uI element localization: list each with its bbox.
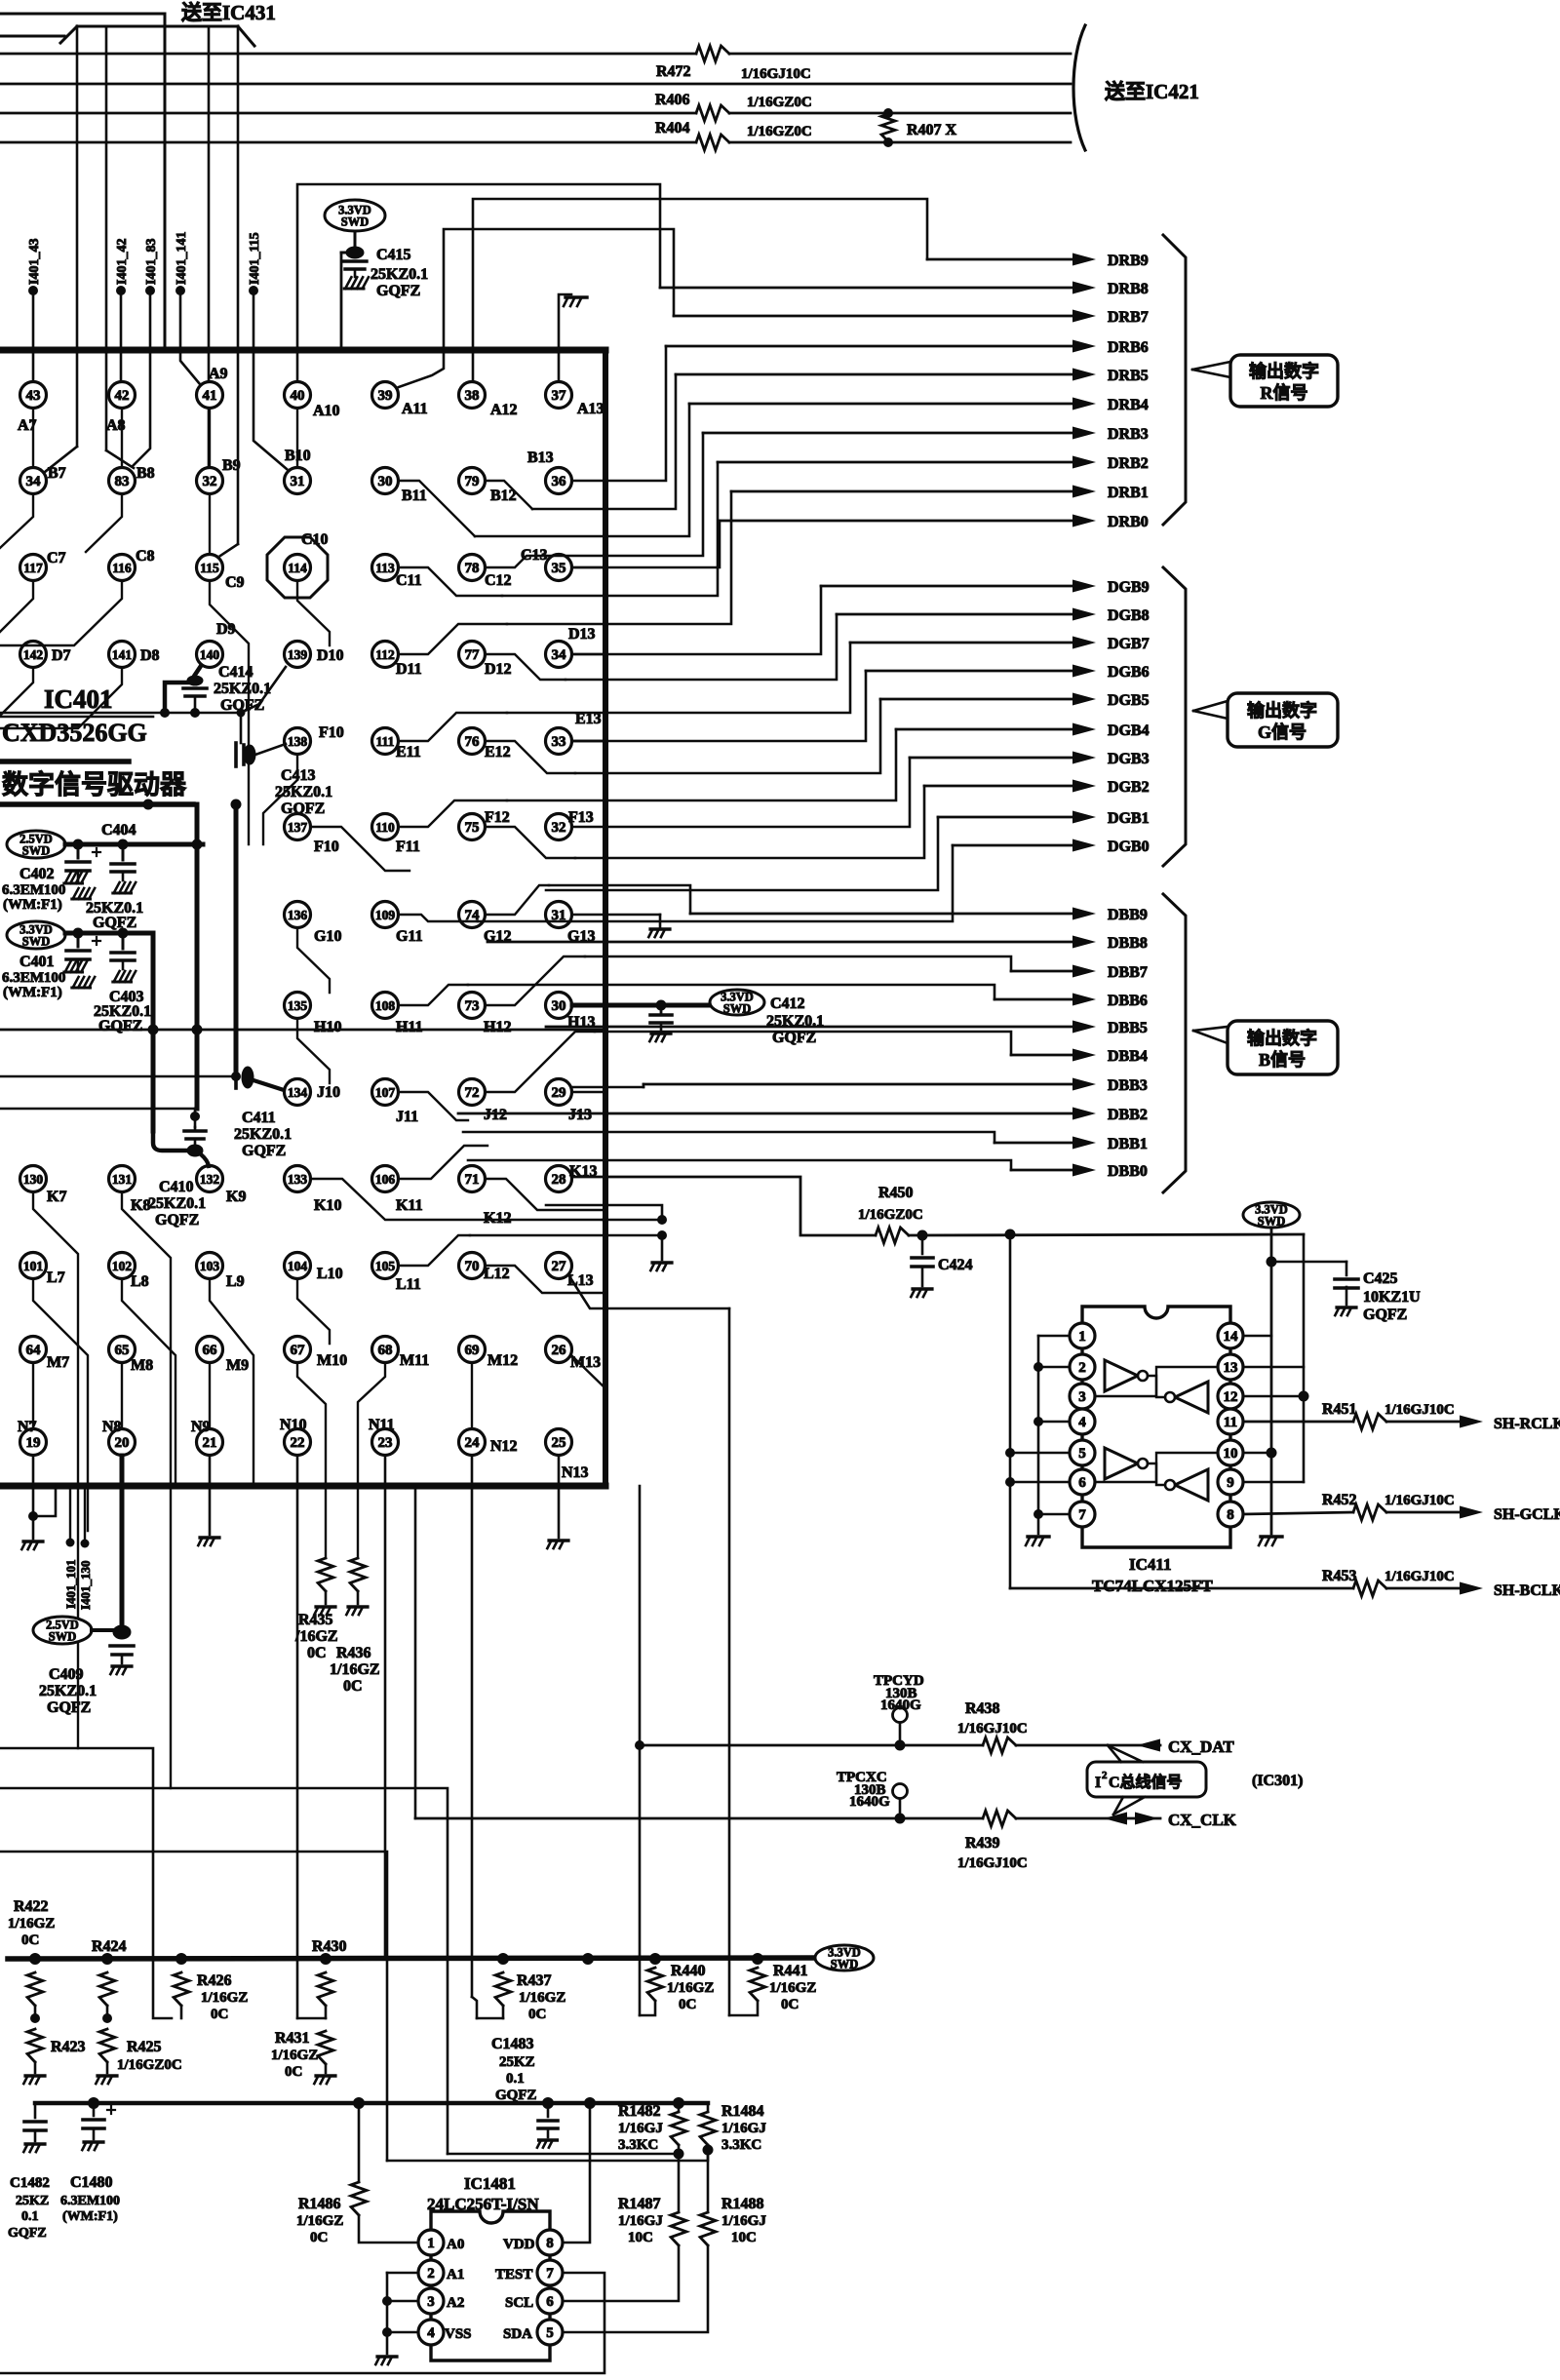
label C1480 xyxy=(60,2174,120,2224)
svg-text:CX_DAT: CX_DAT xyxy=(1168,1737,1234,1756)
label VSS xyxy=(445,2326,472,2342)
junction rail1 x672 xyxy=(649,1953,661,1965)
svg-text:0C: 0C xyxy=(21,1932,39,1948)
wire DGB6 net xyxy=(572,665,1096,742)
label D11 xyxy=(396,661,422,678)
wire H11 feed DBB6 xyxy=(399,985,468,1005)
label L8 xyxy=(131,1273,149,1290)
callout 输出数字G信号 xyxy=(1193,693,1338,747)
svg-text:DRB0: DRB0 xyxy=(1108,514,1149,530)
node TPCXC xyxy=(893,1784,908,1824)
label A13 xyxy=(577,401,604,417)
svg-text:G11: G11 xyxy=(396,928,423,945)
wire H10 connector xyxy=(297,1019,330,1083)
pin 33 (E13) of IC401 xyxy=(546,728,572,755)
wire D12 feed DGB8 xyxy=(486,654,565,680)
label M8 xyxy=(131,1357,153,1374)
svg-text:3: 3 xyxy=(1078,1389,1086,1405)
wire J13 feed xyxy=(572,1091,605,1094)
power 3.3VD SWD (left lower) xyxy=(7,921,65,949)
resistor R437 xyxy=(477,1972,511,2018)
label IC301 ref xyxy=(1252,1773,1303,1789)
capacitor C401 xyxy=(66,933,100,959)
svg-text:1/16GJ: 1/16GJ xyxy=(618,2213,663,2229)
wire DBB9 net xyxy=(549,885,1096,920)
label F10 xyxy=(319,724,344,741)
svg-text:42: 42 xyxy=(115,388,130,404)
power 3.3VD SWD (C412) xyxy=(710,990,764,1016)
svg-text:7: 7 xyxy=(1078,1507,1086,1523)
resistor R1486 xyxy=(351,2103,417,2243)
svg-text:输出数字: 输出数字 xyxy=(1247,1028,1317,1048)
svg-text:19: 19 xyxy=(26,1435,41,1451)
svg-text:1/16GJ10C: 1/16GJ10C xyxy=(1384,1402,1455,1418)
pin 41 (A9) of IC401 xyxy=(197,382,223,409)
svg-text:116: 116 xyxy=(112,561,132,575)
svg-text:1/16GZ: 1/16GZ xyxy=(271,2048,318,2063)
svg-text:D9: D9 xyxy=(216,621,236,638)
svg-text:H10: H10 xyxy=(314,1019,341,1035)
label N9 xyxy=(191,1419,211,1435)
wire C414 jog xyxy=(160,683,192,718)
wire E10 link xyxy=(263,755,297,844)
label DBB6 xyxy=(1108,993,1148,1009)
buffer U2b xyxy=(1095,1448,1156,1482)
pin 135 (H10) of IC401 xyxy=(285,993,311,1019)
svg-text:CXD3526GG: CXD3526GG xyxy=(2,719,147,747)
label C403 xyxy=(94,989,151,1034)
svg-text:1/16GJ: 1/16GJ xyxy=(618,2121,663,2136)
wire vertical to IC411 pins xyxy=(1009,1234,1012,1588)
pin 64 (M7) of IC401 xyxy=(20,1337,47,1363)
capacitor C412 xyxy=(650,1005,672,1032)
label C402 xyxy=(2,866,65,913)
label DRB3 xyxy=(1108,426,1149,443)
wire C8 exit xyxy=(0,581,122,645)
pin 83 (B8) of IC401 xyxy=(109,468,136,494)
svg-text:0.1: 0.1 xyxy=(506,2071,525,2087)
label A9 xyxy=(209,366,228,382)
svg-text:0C: 0C xyxy=(781,1997,799,2012)
junction rail1 x334 xyxy=(320,1953,331,1965)
ground C1480 xyxy=(82,2142,103,2150)
power 3.3VD SWD (rail1) xyxy=(815,1945,874,1971)
svg-text:139: 139 xyxy=(288,647,308,662)
pin 30 (H13) of IC401 xyxy=(546,993,572,1019)
svg-text:R425: R425 xyxy=(127,2039,162,2055)
svg-text:25KZ: 25KZ xyxy=(499,2054,535,2070)
wire DGB9 net xyxy=(572,580,1096,655)
svg-text:1/16GZ0C: 1/16GZ0C xyxy=(747,95,812,110)
label N10 xyxy=(280,1417,307,1433)
label C411 xyxy=(234,1110,292,1159)
label A0 xyxy=(447,2237,464,2252)
pin 14 of IC411 xyxy=(1218,1323,1243,1348)
svg-text:R440: R440 xyxy=(671,1963,706,1979)
svg-text:SWD: SWD xyxy=(22,935,50,949)
label C412 xyxy=(766,995,824,1046)
svg-text:111: 111 xyxy=(376,734,395,749)
label K7 xyxy=(47,1189,66,1205)
svg-text:R404: R404 xyxy=(655,120,690,137)
svg-text:E11: E11 xyxy=(396,744,421,761)
resistor R1482 xyxy=(671,2103,686,2160)
wire IC411 top rail xyxy=(922,1233,1304,1235)
wire thick vertical x157 xyxy=(151,933,156,1131)
svg-text:K11: K11 xyxy=(396,1197,423,1214)
wire N7 hookup xyxy=(28,1456,56,1539)
svg-text:1/16GZ: 1/16GZ xyxy=(330,1661,380,1678)
svg-text:I401_130: I401_130 xyxy=(78,1560,93,1610)
svg-text:2: 2 xyxy=(1078,1360,1086,1376)
pin 8 of IC411 xyxy=(1218,1502,1243,1527)
svg-text:1/16GZ0C: 1/16GZ0C xyxy=(117,2057,182,2073)
pin 137 (F10) of IC401 xyxy=(285,814,311,840)
IC401 bottom boundary xyxy=(0,1483,605,1490)
pin 66 (M9) of IC401 xyxy=(197,1337,223,1363)
resistor R424 xyxy=(99,1972,115,2023)
pin 27 (L13) of IC401 xyxy=(546,1253,572,1279)
label DRB7 xyxy=(1108,309,1149,326)
capacitor C411 xyxy=(231,1067,253,1088)
svg-text:SWD: SWD xyxy=(831,1958,858,1971)
label L9 xyxy=(226,1273,245,1290)
svg-text:0C: 0C xyxy=(310,2230,328,2245)
svg-text:71: 71 xyxy=(465,1172,480,1188)
bus gather bracket IC421 xyxy=(1073,25,1085,150)
svg-text:25KZ0.1: 25KZ0.1 xyxy=(214,681,271,697)
pin 130 (K7) of IC401 xyxy=(20,1166,47,1192)
wire DBB1 net xyxy=(463,1132,1096,1150)
label C8 xyxy=(136,548,155,565)
svg-text:132: 132 xyxy=(200,1172,220,1187)
svg-text:L11: L11 xyxy=(396,1276,421,1293)
svg-text:136: 136 xyxy=(288,908,308,922)
label A11 xyxy=(402,401,428,417)
svg-text:12: 12 xyxy=(1224,1389,1238,1405)
wire C11 feed DRB2 xyxy=(399,567,502,596)
label R438 xyxy=(957,1700,1028,1736)
pin 4 of IC411 xyxy=(1070,1409,1095,1434)
label K12 xyxy=(484,1210,511,1227)
svg-text:2: 2 xyxy=(1102,1770,1108,1781)
svg-text:4: 4 xyxy=(427,2325,435,2341)
pin 141 (D8) of IC401 xyxy=(109,642,136,668)
svg-text:R1488: R1488 xyxy=(721,2196,764,2212)
wire TEST net xyxy=(0,2273,604,2373)
pin 140 (D9) of IC401 xyxy=(197,642,223,668)
wire thick elbow to C410 xyxy=(153,1131,187,1151)
svg-text:GQFZ: GQFZ xyxy=(47,1699,91,1716)
callout 输出数字R信号 xyxy=(1192,355,1338,407)
wire F10 connector xyxy=(311,827,409,871)
wire lower-left h4 xyxy=(0,1852,387,2161)
label J12 xyxy=(484,1107,507,1123)
label D9 xyxy=(216,621,236,638)
svg-text:L8: L8 xyxy=(131,1273,149,1290)
svg-text:6.3EM100: 6.3EM100 xyxy=(2,882,65,898)
svg-text:R436: R436 xyxy=(336,1645,371,1661)
wire CX_CLK net xyxy=(415,1811,1160,1826)
svg-text:1/16GJ10C: 1/16GJ10C xyxy=(1384,1493,1455,1508)
wire J11 connector xyxy=(399,1092,468,1120)
svg-text:25: 25 xyxy=(552,1435,566,1451)
label C7 xyxy=(47,550,66,566)
label DBB0 xyxy=(1108,1163,1148,1180)
label L11 xyxy=(396,1276,421,1293)
label D13 xyxy=(568,626,596,643)
label R439 xyxy=(957,1835,1028,1871)
ground IC411 left xyxy=(1026,1537,1049,1545)
label E12 xyxy=(485,744,511,761)
ground at A13 xyxy=(559,294,587,381)
wire C413 feed xyxy=(240,713,243,743)
pin 110 (F11) of IC401 xyxy=(372,814,399,840)
wire M12 stub xyxy=(471,1363,473,1428)
svg-text:B11: B11 xyxy=(402,488,427,504)
wire K11 connector xyxy=(399,1146,487,1179)
wire DGB8 net xyxy=(565,608,1096,681)
wire D13 feed xyxy=(572,653,605,656)
wire L13 chain xyxy=(569,1276,729,1308)
label R430 xyxy=(312,1938,347,1955)
junction rail1 x36 xyxy=(29,1953,41,1965)
svg-text:R435: R435 xyxy=(298,1612,333,1628)
label C11 xyxy=(396,572,422,589)
wire DGB0 net xyxy=(478,839,1096,922)
svg-text:13: 13 xyxy=(1224,1360,1238,1376)
svg-text:K10: K10 xyxy=(314,1197,341,1214)
svg-text:L10: L10 xyxy=(317,1266,343,1282)
wire DBB5 net xyxy=(546,1021,1096,1034)
wire rail1 xyxy=(8,1958,815,1959)
label DGB4 xyxy=(1108,722,1150,739)
svg-text:N8: N8 xyxy=(102,1419,122,1435)
label CX_DAT xyxy=(1168,1737,1234,1756)
svg-text:29: 29 xyxy=(552,1085,566,1101)
pin 34 (B7) of IC401 xyxy=(20,468,47,494)
pin 34 (D13) of IC401 xyxy=(546,642,572,668)
label R424 xyxy=(92,1938,127,1955)
label N12 xyxy=(490,1438,518,1455)
label DGB3 xyxy=(1108,751,1150,767)
svg-text:3: 3 xyxy=(427,2294,435,2310)
label M13 xyxy=(570,1354,601,1371)
svg-text:D7: D7 xyxy=(52,647,71,664)
pin 139 (D10) of IC401 xyxy=(285,642,311,668)
power 2.5VD SWD (left upper) xyxy=(7,831,65,858)
svg-text:C404: C404 xyxy=(101,822,136,839)
svg-text:131: 131 xyxy=(112,1172,133,1187)
capacitor C415 xyxy=(343,231,367,277)
svg-text:10KZ1U: 10KZ1U xyxy=(1363,1289,1421,1306)
svg-text:DBB3: DBB3 xyxy=(1108,1077,1148,1094)
svg-text:25KZ0.1: 25KZ0.1 xyxy=(234,1126,292,1143)
svg-text:DBB9: DBB9 xyxy=(1108,907,1148,923)
svg-text:R1487: R1487 xyxy=(618,2196,661,2212)
capacitor C404 body xyxy=(111,844,135,880)
ground C404 xyxy=(113,882,136,893)
wire DGB5 net xyxy=(575,693,1096,774)
svg-text:1/16GJ10C: 1/16GJ10C xyxy=(957,1721,1028,1736)
junction rail1 x603 xyxy=(582,1953,594,1965)
ground R436 xyxy=(346,1607,368,1615)
pin 103 (L9) of IC401 xyxy=(197,1253,223,1279)
wire L11 connector xyxy=(399,1235,470,1266)
pin 23 (N11) of IC401 xyxy=(372,1429,399,1456)
capacitor C1480 xyxy=(83,2103,115,2139)
label G13 xyxy=(567,928,595,945)
svg-text:L9: L9 xyxy=(226,1273,245,1290)
svg-text:30: 30 xyxy=(378,474,393,489)
label E13 xyxy=(575,711,602,727)
pin 28 (K13) of IC401 xyxy=(546,1166,572,1192)
pin 38 (A12) of IC401 xyxy=(459,382,486,409)
pin 37 (A13) of IC401 xyxy=(546,382,572,409)
svg-text:R451: R451 xyxy=(1322,1401,1357,1418)
capacitor C409 xyxy=(110,1646,134,1663)
svg-text:1/16GJ: 1/16GJ xyxy=(721,2213,766,2229)
pin 71 (K12) of IC401 xyxy=(459,1166,486,1192)
resistor R440 xyxy=(640,1968,663,2015)
wire DGB4 net xyxy=(507,723,1096,801)
svg-text:B9: B9 xyxy=(222,457,241,474)
wire F12 feed DGB2 xyxy=(486,827,575,858)
label R1484 xyxy=(721,2103,766,2153)
resistor R423 xyxy=(27,2029,43,2073)
label 送至IC431 xyxy=(181,1,276,24)
svg-text:25KZ0.1: 25KZ0.1 xyxy=(766,1013,824,1030)
wire horizontal y1104 xyxy=(0,1075,232,1078)
wire lower-left h3 (SCL from IC301) xyxy=(414,1486,417,1818)
label SCL xyxy=(505,2295,533,2311)
pin 77 (D12) of IC401 xyxy=(459,642,486,668)
label C425 xyxy=(1363,1270,1421,1323)
svg-text:TEST: TEST xyxy=(495,2267,532,2282)
label DRB5 xyxy=(1108,368,1149,384)
pin 68 (M11) of IC401 xyxy=(372,1337,399,1363)
svg-text:10C: 10C xyxy=(731,2230,757,2245)
svg-text:106: 106 xyxy=(375,1172,396,1187)
svg-text:1/16GZ: 1/16GZ xyxy=(296,2213,343,2229)
label C424 xyxy=(938,1257,973,1273)
svg-text:11: 11 xyxy=(1224,1415,1237,1430)
svg-text:(WM:F1): (WM:F1) xyxy=(3,897,62,913)
label IC411 xyxy=(1092,1555,1213,1595)
svg-text:28: 28 xyxy=(552,1172,566,1188)
pin 19 (N7) of IC401 xyxy=(20,1429,47,1456)
svg-text:24LC256T-I/SN: 24LC256T-I/SN xyxy=(427,2195,539,2213)
label L10 xyxy=(317,1266,343,1282)
label DGB9 xyxy=(1108,579,1150,596)
svg-text:K9: K9 xyxy=(226,1189,246,1205)
wire G11 feed DGB0 xyxy=(399,915,478,921)
svg-text:C1480: C1480 xyxy=(70,2174,113,2191)
svg-text:1/16GZ: 1/16GZ xyxy=(8,1916,55,1931)
bus bracket R group xyxy=(1163,235,1186,525)
pin 131 (K8) of IC401 xyxy=(109,1166,136,1192)
wire 3.3VD rail xyxy=(65,928,153,939)
label R1487 xyxy=(618,2196,663,2245)
svg-text:C413: C413 xyxy=(281,767,316,784)
svg-text:34: 34 xyxy=(552,647,567,663)
pin 43 (A7) of IC401 xyxy=(20,382,47,409)
label C410 xyxy=(148,1179,206,1229)
wire thick vertical x242 xyxy=(231,800,242,1073)
wire E12 feed DGB5 xyxy=(486,741,575,773)
svg-text:(WM:F1): (WM:F1) xyxy=(62,2209,118,2224)
wire pin12 link xyxy=(1243,1395,1304,1398)
pin 108 (H11) of IC401 xyxy=(372,993,399,1019)
pin 117 (C7) of IC401 xyxy=(20,555,47,581)
svg-text:113: 113 xyxy=(375,561,395,575)
label DBB4 xyxy=(1108,1048,1148,1065)
label K9 xyxy=(226,1189,246,1205)
pin 8 of IC1481 xyxy=(537,2230,563,2255)
svg-text:C409: C409 xyxy=(49,1666,84,1683)
svg-text:A13: A13 xyxy=(577,401,604,417)
node I401_83 xyxy=(133,239,159,466)
svg-text:M12: M12 xyxy=(487,1352,518,1369)
ground C403 xyxy=(113,971,136,982)
svg-text:C1482: C1482 xyxy=(10,2175,50,2191)
svg-text:GQFZ: GQFZ xyxy=(772,1030,816,1046)
svg-text:C412: C412 xyxy=(770,995,805,1012)
svg-text:A2: A2 xyxy=(447,2295,464,2311)
svg-text:1/16GZ: 1/16GZ xyxy=(667,1980,714,1996)
wire bus line v2 xyxy=(106,26,134,468)
svg-text:送至IC431: 送至IC431 xyxy=(181,1,276,24)
pin 142 (D7) of IC401 xyxy=(20,642,47,668)
svg-text:I401_141: I401_141 xyxy=(175,232,189,285)
resistor R426 xyxy=(174,1972,189,2018)
wire G13 line xyxy=(572,915,660,927)
wire N13 stub xyxy=(558,1456,561,1538)
wire B10 stub up xyxy=(296,409,298,467)
label A1 xyxy=(447,2267,464,2282)
wire thick vertical x202 xyxy=(148,804,203,1109)
svg-text:25KZ: 25KZ xyxy=(16,2194,49,2208)
ground K cluster xyxy=(650,1263,672,1270)
svg-text:DRB3: DRB3 xyxy=(1108,426,1149,443)
node TPCYD xyxy=(893,1708,908,1751)
wire N12 vertical xyxy=(472,1456,477,2018)
svg-text:DRB1: DRB1 xyxy=(1108,485,1149,501)
svg-text:66: 66 xyxy=(203,1343,218,1358)
pin 39 (A11) of IC401 xyxy=(372,382,399,409)
wire M9 stub xyxy=(209,1363,211,1428)
svg-text:107: 107 xyxy=(375,1085,396,1100)
svg-text:2: 2 xyxy=(427,2266,435,2282)
ground N13 xyxy=(547,1541,568,1548)
pin 25 (N13) of IC401 xyxy=(546,1429,572,1456)
svg-text:SH-BCLK: SH-BCLK xyxy=(1494,1582,1560,1599)
wire D7 exit xyxy=(0,668,33,716)
label C12 xyxy=(485,572,512,589)
label K11 xyxy=(396,1197,423,1214)
label R431 xyxy=(271,2030,318,2080)
power 3.3VD SWD (IC411) xyxy=(1243,1202,1300,1229)
wire H12 feed DBB7 xyxy=(486,956,585,1005)
wire pin6 feed xyxy=(1005,1477,1070,1487)
label K8 xyxy=(131,1197,150,1214)
label R452 xyxy=(1322,1492,1560,1523)
bus gather bracket to IC431 xyxy=(60,26,254,46)
svg-text:A0: A0 xyxy=(447,2237,464,2252)
svg-text:F10: F10 xyxy=(319,724,344,741)
svg-text:A9: A9 xyxy=(209,366,228,382)
wire L7 chain xyxy=(33,1279,88,1531)
